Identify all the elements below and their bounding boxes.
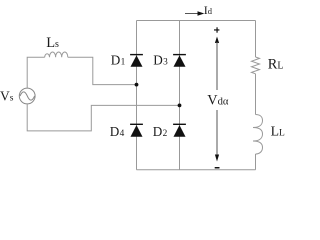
wire source bottom lead to node B bbox=[27, 104, 179, 131]
Vd arrow line upper bbox=[216, 42, 218, 90]
diode D3 (triangle + bar) bbox=[174, 55, 186, 66]
wire load branch upper bbox=[255, 21, 257, 58]
inductor L_L bbox=[253, 115, 263, 155]
plus sign bbox=[214, 29, 219, 30]
svg-text:D2: D2 bbox=[153, 124, 168, 139]
svg-text:D3: D3 bbox=[153, 52, 168, 67]
svg-text:LL: LL bbox=[271, 124, 285, 139]
wire source top lead bbox=[27, 57, 45, 88]
svg-text:Vs: Vs bbox=[0, 88, 14, 103]
wire right bridge leg bbox=[179, 21, 181, 170]
svg-text:Ls: Ls bbox=[46, 35, 59, 51]
Vd arrow down head bbox=[215, 155, 219, 162]
node A junction dot bbox=[135, 83, 139, 87]
Id arrow bbox=[185, 13, 199, 15]
wire top rail bbox=[137, 20, 256, 22]
Vd arrow line lower bbox=[216, 110, 218, 156]
resistor R_L bbox=[252, 57, 260, 74]
wire load branch middle bbox=[255, 74, 257, 115]
sine wave inside source bbox=[20, 92, 35, 100]
wire bottom rail bbox=[137, 169, 256, 171]
inductor Ls bbox=[45, 52, 68, 57]
Vd arrow up head bbox=[215, 37, 219, 44]
minus sign bbox=[215, 167, 220, 169]
wire from Ls to node A bbox=[68, 57, 137, 84]
svg-text:D4: D4 bbox=[110, 124, 125, 139]
svg-text:RL: RL bbox=[268, 57, 284, 73]
source circle Vs bbox=[19, 88, 35, 104]
wire load branch lower bbox=[255, 154, 257, 170]
wire left bridge leg bbox=[136, 21, 138, 170]
diode D2 (triangle + bar) bbox=[174, 125, 186, 137]
diode D4 (triangle + bar) bbox=[131, 125, 143, 137]
diode D1 (triangle + bar) bbox=[131, 55, 143, 66]
svg-text:Id: Id bbox=[204, 3, 213, 17]
svg-text:Vdα: Vdα bbox=[207, 93, 229, 109]
svg-text:D1: D1 bbox=[111, 52, 126, 67]
node B junction dot bbox=[178, 104, 182, 108]
